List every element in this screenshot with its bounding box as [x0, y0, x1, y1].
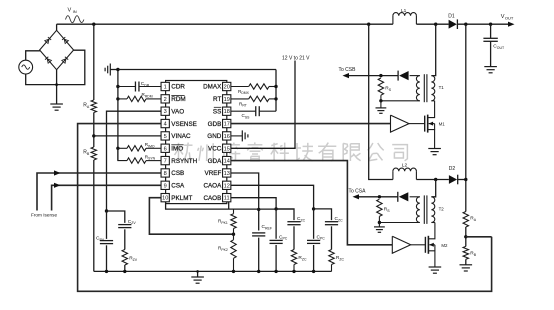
svg-text:14: 14 [224, 159, 230, 165]
resistor RZV [122, 250, 138, 272]
capacitor CPC b [307, 209, 325, 272]
svg-text:V: V [68, 8, 72, 14]
svg-text:7: 7 [164, 159, 167, 165]
resistor RB output [463, 246, 477, 259]
wire VAO left [107, 111, 162, 211]
svg-text:T1: T1 [439, 85, 445, 90]
svg-text:GDA: GDA [208, 158, 222, 165]
svg-text:RT: RT [213, 96, 221, 103]
svg-text:D2: D2 [449, 166, 456, 172]
svg-text:16: 16 [224, 134, 230, 140]
svg-text:10: 10 [162, 196, 168, 202]
inductor L2 [393, 163, 417, 180]
svg-text:From Isense: From Isense [31, 213, 57, 218]
ground GND pin16 [231, 130, 248, 141]
wire divider middle [92, 113, 95, 148]
wire signal-ground bus vertical [116, 68, 119, 161]
capacitor CPV [96, 211, 113, 271]
wire divider out mid [464, 227, 492, 246]
wire divider top [93, 24, 95, 100]
node rail-divider junction [92, 23, 95, 26]
inductor L1 [393, 8, 417, 24]
label VIN [66, 8, 84, 23]
label VOUT [501, 14, 515, 27]
resistor RIMO [118, 142, 161, 151]
svg-text:9: 9 [164, 183, 167, 189]
svg-text:VSENSE: VSENSE [171, 121, 197, 128]
svg-text:8: 8 [164, 171, 167, 177]
resistor RSYN [118, 148, 161, 163]
wire D2 to output bus [458, 179, 466, 181]
ground M2 source [429, 267, 442, 273]
wire RB to ground [465, 259, 467, 265]
svg-text:OUT: OUT [505, 16, 514, 21]
diode D4 ct2 [398, 192, 409, 202]
ground M1 source [428, 149, 441, 155]
resistor RZC b [329, 250, 345, 272]
svg-text:GND: GND [207, 133, 221, 140]
wire L2 to D2 [416, 178, 449, 181]
wire ct1 out [349, 74, 399, 77]
wire T2 primary drop [431, 180, 435, 197]
wire top rail [57, 23, 393, 25]
pin names U1 [171, 84, 222, 202]
diode D3 ct1 [398, 71, 409, 81]
bridge rectifier BR1 [40, 30, 74, 69]
capacitor CDR [118, 81, 161, 92]
wire signal-ground bus top [118, 69, 276, 71]
resistor RPK1 [218, 209, 236, 228]
ground RS phase2 [374, 227, 385, 232]
svg-text:L2: L2 [402, 163, 408, 169]
svg-text:IN: IN [73, 9, 77, 14]
node VAO comp junction [105, 209, 108, 212]
svg-text:SS: SS [213, 108, 221, 115]
node comp pair B junction [312, 207, 315, 210]
resistor RS phase2 [377, 199, 391, 222]
diode D2 [449, 166, 458, 184]
wire CSB input [37, 170, 161, 210]
wire VINAC to pin 5 [94, 135, 161, 137]
transformer T2 [416, 195, 444, 224]
svg-text:CAOB: CAOB [203, 195, 221, 202]
wire VREF down [231, 173, 261, 231]
svg-text:CSB: CSB [171, 170, 184, 177]
diode D1 [448, 14, 457, 30]
label To CSA [349, 188, 367, 199]
svg-text:11: 11 [224, 196, 230, 202]
svg-text:12 V to 21 V: 12 V to 21 V [282, 56, 310, 62]
op-amp driver B [392, 236, 425, 253]
svg-text:L1: L1 [401, 8, 407, 14]
ac source V1 [19, 60, 33, 74]
wire bottom rail [94, 270, 332, 273]
wire T1 sec top [410, 75, 420, 77]
wire T1 sec bottom [379, 99, 420, 108]
wire divider bottom [93, 160, 95, 271]
svg-text:12: 12 [224, 183, 230, 189]
ground bridge [50, 104, 63, 110]
capacitor CZC b [314, 209, 344, 250]
op-amp U1 UCC28070 body [166, 81, 227, 204]
svg-text:RDM: RDM [171, 96, 185, 103]
transistor M1 [425, 101, 446, 149]
svg-text:6: 6 [164, 146, 167, 152]
resistor RZC a [291, 250, 307, 272]
capacitor CREF [252, 224, 272, 271]
node rail to phase2 drop [367, 23, 370, 26]
resistor RA output [463, 212, 477, 228]
wire bridge plus to rail [56, 24, 58, 30]
svg-text:17: 17 [224, 122, 230, 128]
svg-text:To CSB: To CSB [339, 67, 357, 73]
wire input drop to L2 [369, 24, 393, 179]
svg-text:M2: M2 [441, 243, 448, 248]
wire GDB to driver [231, 123, 391, 125]
ground RS phase1 [376, 108, 387, 113]
ground COUT [484, 67, 497, 73]
wire VCC supply [231, 61, 295, 149]
resistor RA input divider [83, 100, 96, 113]
wire CAOB route [231, 198, 276, 209]
node comp pair A junction [274, 207, 277, 210]
wire T2 sec top [410, 196, 420, 198]
wire under-IC bus [166, 202, 294, 209]
watermark text (light gray CJK company name, drawn as strokes) [173, 142, 407, 161]
svg-text:M1: M1 [439, 122, 446, 127]
wire T1 primary drop [431, 24, 435, 75]
wire DMAX-RT ground vertical [274, 70, 277, 112]
wire ct2 out [359, 195, 398, 198]
wire bridge right to ac return [26, 50, 85, 84]
wire bridge minus down [55, 70, 58, 104]
ground RB [460, 265, 473, 271]
svg-text:20: 20 [224, 85, 230, 91]
svg-text:1: 1 [164, 85, 167, 91]
transformer T1 [416, 74, 444, 102]
wire GDA route [231, 161, 392, 245]
svg-text:D1: D1 [448, 14, 455, 20]
op-amp driver A [391, 115, 425, 132]
ground signal left [105, 64, 118, 76]
svg-text:CSA: CSA [171, 183, 185, 190]
node PKLMT divider mid [232, 229, 235, 240]
svg-text:VREF: VREF [205, 170, 222, 177]
wire T2 sec bottom [378, 221, 420, 227]
ground bottom rail [191, 270, 204, 283]
label From Isense [31, 213, 57, 218]
svg-text:PKLMT: PKLMT [171, 195, 192, 202]
resistor RDMX [231, 84, 276, 95]
label To CSB [339, 67, 357, 78]
capacitor CZV [118, 219, 136, 250]
svg-text:5: 5 [164, 134, 167, 140]
wire output divider vertical [464, 24, 467, 211]
svg-text:GDB: GDB [208, 121, 222, 128]
resistor RS phase1 [378, 78, 392, 101]
svg-text:VINAC: VINAC [171, 133, 191, 140]
svg-text:18: 18 [224, 109, 230, 115]
wire CAOA route [231, 185, 314, 209]
svg-text:To CSA: To CSA [349, 188, 367, 194]
label 12V to 21V [282, 56, 310, 62]
wire PKLMT route [149, 198, 233, 235]
pin boxes U1 [161, 82, 231, 201]
svg-text:19: 19 [224, 97, 230, 103]
svg-text:4: 4 [164, 122, 167, 128]
svg-text:CDR: CDR [171, 84, 185, 91]
resistor RB input divider [83, 147, 96, 160]
wire ac to bridge left [26, 51, 40, 60]
svg-text:15: 15 [224, 146, 230, 152]
wire CSA input [52, 183, 161, 211]
capacitor CSS [231, 106, 276, 119]
capacitor COUT [483, 24, 505, 66]
capacitor CPC a [270, 209, 288, 272]
svg-text:IMO: IMO [171, 145, 183, 152]
svg-text:13: 13 [224, 171, 230, 177]
wire VAO zero branch [107, 211, 125, 223]
svg-text:2: 2 [164, 97, 167, 103]
svg-text:CAOA: CAOA [203, 183, 222, 190]
capacitor CZC a [276, 209, 306, 250]
svg-text:3: 3 [164, 109, 167, 115]
resistor RRDM [118, 92, 161, 102]
wire VSENSE route [78, 124, 492, 292]
svg-text:VCC: VCC [208, 145, 222, 152]
wire D1 to VOUT [457, 23, 508, 26]
resistor RRT [231, 96, 276, 107]
svg-text:DMAX: DMAX [203, 84, 222, 91]
svg-text:VAO: VAO [171, 108, 184, 115]
wire L1 to D1 [416, 23, 448, 26]
svg-text:RSYNTH: RSYNTH [171, 158, 197, 165]
svg-text:T2: T2 [439, 207, 445, 212]
transistor M2 [425, 223, 448, 268]
resistor RPK2 [218, 240, 236, 272]
